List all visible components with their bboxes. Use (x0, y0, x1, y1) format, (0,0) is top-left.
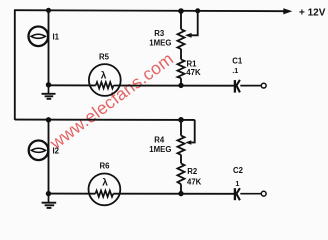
node lower rail / I2 (46, 117, 51, 122)
output terminal (bottom) (261, 191, 266, 196)
svg-text:47K: 47K (186, 68, 201, 77)
resistor R2 (178, 163, 202, 186)
wire I1 branch (48, 10, 50, 85)
current source I1 (29, 27, 60, 47)
node R2 output junction (178, 191, 183, 196)
wire +12V top rail (14, 10, 284, 11)
+12V supply arrow (283, 8, 325, 19)
wire bottom output line (49, 193, 235, 195)
svg-text:λ: λ (102, 178, 108, 189)
svg-text:C1: C1 (232, 56, 243, 65)
wire lower rail to R4 (15, 119, 195, 121)
ground (bottom section) (42, 194, 57, 208)
svg-text:1MEG: 1MEG (149, 145, 171, 154)
output terminal (top) (261, 83, 266, 88)
node top rail / I1 (46, 8, 51, 13)
svg-text:I1: I1 (53, 33, 60, 42)
wire left supply bus (14, 10, 16, 120)
capacitor C1 (232, 56, 261, 92)
ground (top section) (42, 85, 56, 99)
wire top output line (49, 84, 235, 86)
node I2 ground junction (46, 191, 51, 196)
svg-text:R5: R5 (99, 53, 110, 62)
svg-text:I2: I2 (53, 147, 60, 156)
node lower rail / R4 (178, 117, 184, 123)
svg-text:.1: .1 (232, 66, 238, 75)
potentiometer R4 (149, 135, 191, 155)
svg-text:+ 12V: + 12V (299, 8, 326, 19)
photocell R6 (89, 161, 121, 205)
svg-text:R2: R2 (187, 167, 198, 176)
svg-text:1: 1 (235, 179, 239, 188)
svg-text:R4: R4 (154, 135, 165, 144)
watermark www.elecfans.com (45, 49, 177, 154)
svg-text:C2: C2 (233, 166, 244, 175)
node I1 ground junction (46, 82, 51, 87)
wire R3-R1 branch (180, 11, 182, 86)
svg-text:R3: R3 (154, 29, 165, 38)
current source I2 (29, 141, 60, 161)
resistor R1 (178, 59, 201, 78)
node top rail / wiper (195, 8, 200, 13)
svg-text:1MEG: 1MEG (149, 39, 171, 48)
photocell R5 (89, 53, 121, 96)
wire R4 wiper arm (191, 120, 195, 143)
potentiometer R3 (149, 29, 191, 49)
wire R4-R2 branch (180, 120, 182, 194)
wire I2 branch (48, 120, 50, 194)
node top rail / R3 (178, 8, 184, 14)
wire R3 wiper arm (191, 11, 197, 36)
capacitor C2 (233, 166, 261, 201)
svg-text:47K: 47K (187, 178, 202, 187)
node R1 output junction (178, 83, 183, 88)
svg-text:R6: R6 (100, 161, 111, 170)
